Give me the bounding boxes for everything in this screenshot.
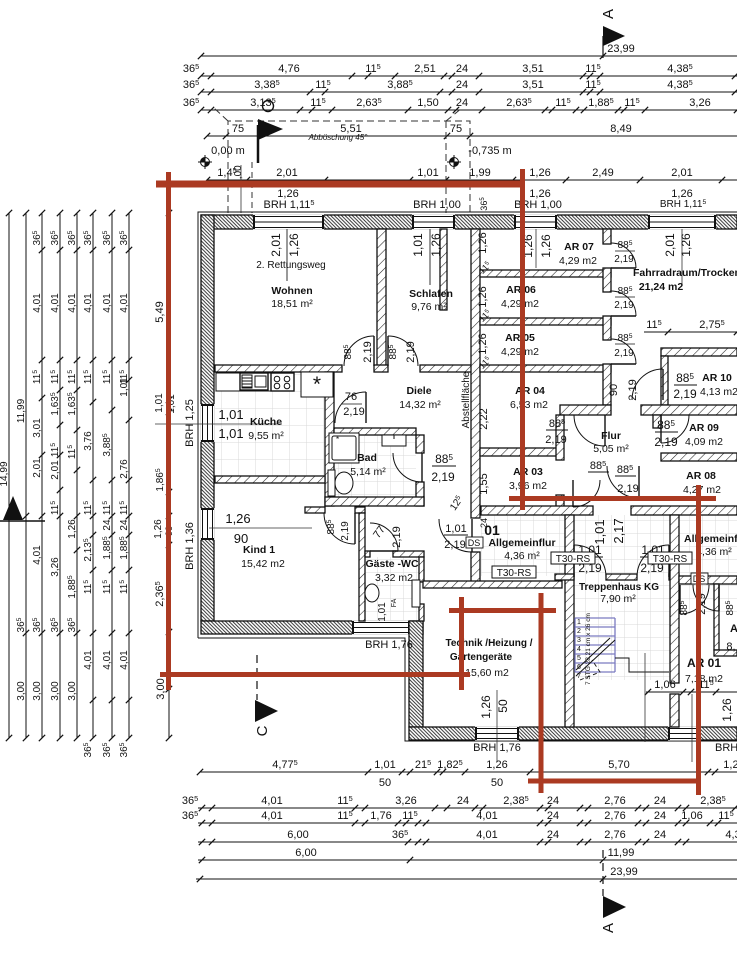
svg-text:4,01: 4,01 <box>102 650 113 670</box>
left dim col 11,99 <box>16 210 29 741</box>
Bad washbasin <box>382 435 406 446</box>
svg-text:Allgemeinflur: Allgemeinflur <box>488 537 555 549</box>
section marker A top <box>600 9 625 58</box>
svg-text:BRH 1,76: BRH 1,76 <box>473 742 521 754</box>
svg-text:1,76: 1,76 <box>370 810 391 822</box>
wall Flur west <box>556 415 564 460</box>
window line Kueche <box>155 423 282 425</box>
svg-text:DS: DS <box>468 538 481 548</box>
svg-text:3: 3 <box>577 637 581 644</box>
svg-text:BRH 1,76: BRH 1,76 <box>365 639 413 651</box>
door AR05 <box>611 339 636 364</box>
svg-text:2,01: 2,01 <box>32 458 43 478</box>
door Flur south <box>607 466 639 498</box>
svg-text:3,01: 3,01 <box>32 418 43 438</box>
svg-text:AR 10: AR 10 <box>702 372 732 384</box>
svg-text:C: C <box>254 725 271 736</box>
svg-text:24: 24 <box>456 97 468 109</box>
svg-text:9,55 m²: 9,55 m² <box>248 430 284 442</box>
svg-text:1,26: 1,26 <box>153 519 164 539</box>
svg-text:3,26: 3,26 <box>50 557 61 577</box>
exterior wall bottom Kind1 <box>201 621 423 634</box>
svg-text:AR 03: AR 03 <box>513 466 543 478</box>
door right small <box>693 585 719 611</box>
labels corridor 1,01 2,17 <box>592 518 626 544</box>
svg-text:1: 1 <box>577 619 581 626</box>
labels Schlafen window <box>411 233 443 257</box>
svg-text:1,01: 1,01 <box>374 759 395 771</box>
svg-text:2,01: 2,01 <box>50 460 61 480</box>
flag marker at building corner <box>258 119 283 163</box>
svg-text:24: 24 <box>102 519 113 531</box>
window line Fahrrad <box>681 229 683 285</box>
svg-text:2,19: 2,19 <box>614 300 634 311</box>
wall right small room <box>714 584 719 650</box>
svg-text:24: 24 <box>456 63 468 75</box>
dimension row 2,75 <box>644 318 737 335</box>
door band T30 left labels <box>444 523 468 551</box>
svg-text:1,26: 1,26 <box>479 695 493 719</box>
svg-text:1,55: 1,55 <box>478 473 490 494</box>
svg-text:5,49: 5,49 <box>154 301 166 322</box>
dashed line bottom marker <box>602 850 604 896</box>
svg-text:2: 2 <box>577 628 581 635</box>
svg-text:1,01: 1,01 <box>592 519 607 544</box>
wall AR09 west <box>653 415 661 428</box>
svg-text:14,99: 14,99 <box>0 461 10 486</box>
door Kind1 <box>324 513 355 544</box>
tiles Treppenhaus <box>574 576 670 680</box>
reference circle on 3,13 <box>263 101 274 112</box>
window line Technik south <box>496 690 498 762</box>
svg-text:2,01: 2,01 <box>671 167 692 179</box>
left dim col 14,99 <box>0 210 12 741</box>
svg-text:8,: 8, <box>726 641 735 653</box>
svg-text:1,26: 1,26 <box>477 232 489 253</box>
svg-text:2,76: 2,76 <box>604 810 625 822</box>
shaft FA <box>412 580 420 607</box>
window W5 Kueche <box>200 404 214 442</box>
wall divider Wohnen-Schlafen <box>377 229 386 366</box>
door Bad <box>393 453 422 482</box>
svg-text:2,19: 2,19 <box>405 341 417 362</box>
dimension row top 2 <box>183 78 737 95</box>
wall Bad south <box>325 497 424 506</box>
svg-text:AR 08: AR 08 <box>686 470 716 482</box>
dimension row bottom 3 <box>182 809 737 826</box>
window W2 Schlafen <box>412 214 455 229</box>
svg-text:4,01: 4,01 <box>50 293 61 313</box>
svg-text:3,00: 3,00 <box>16 681 27 701</box>
exterior wall top <box>201 215 737 229</box>
wall Treppenhaus west <box>565 515 574 727</box>
stair landing outline <box>615 658 669 672</box>
svg-text:4,01: 4,01 <box>261 795 282 807</box>
door Schlafen <box>388 336 418 366</box>
door Treppenhaus right labels <box>640 543 666 575</box>
svg-text:1,26: 1,26 <box>723 759 737 771</box>
wall Kind1 door wall <box>305 507 325 513</box>
labels Kind1 window <box>225 511 250 546</box>
svg-text:4,01: 4,01 <box>476 810 497 822</box>
svg-text:6,00: 6,00 <box>295 847 316 859</box>
door AR07 labels <box>614 240 635 265</box>
dimension row bottom 4 <box>198 828 737 845</box>
wall AR10 west <box>661 356 668 405</box>
exterior wall left <box>201 215 214 621</box>
door Wohnen labels <box>343 341 374 362</box>
labels 50 below row <box>379 777 503 789</box>
wall Technik north <box>423 581 562 588</box>
ticks red column <box>166 210 172 692</box>
svg-text:Allgemeinflur: Allgemeinflur <box>684 533 737 545</box>
door AR10 <box>632 369 663 400</box>
svg-text:AR 09: AR 09 <box>689 422 719 434</box>
svg-text:3,26: 3,26 <box>689 97 710 109</box>
svg-text:BRH 1,76: BRH 1,76 <box>715 742 737 754</box>
window W4 Fahrradraum <box>648 214 716 229</box>
svg-text:4,01: 4,01 <box>32 545 43 565</box>
svg-text:8,49: 8,49 <box>610 123 631 135</box>
svg-text:2,19: 2,19 <box>627 379 639 400</box>
door Treppenhaus right T30 <box>637 545 669 577</box>
stair treads <box>575 618 615 672</box>
door Flur west <box>574 415 605 446</box>
svg-text:Wohnen: Wohnen <box>271 285 312 297</box>
svg-text:BRH 1,00: BRH 1,00 <box>413 199 461 211</box>
svg-text:1,99: 1,99 <box>469 167 490 179</box>
outer plaster line <box>198 212 737 741</box>
door DS right labels <box>679 593 708 615</box>
svg-text:Gäste -WC: Gäste -WC <box>365 558 419 570</box>
Bad shower <box>329 433 359 463</box>
window W3 AR07 <box>514 214 557 229</box>
kitchen fridge <box>301 372 333 397</box>
window line AR07 <box>535 229 537 268</box>
svg-text:2,19: 2,19 <box>545 434 566 446</box>
svg-text:50: 50 <box>491 777 503 789</box>
svg-text:BRH 1,115: BRH 1,115 <box>264 198 315 211</box>
stair direction line <box>576 640 615 676</box>
svg-text:2,51: 2,51 <box>414 63 435 75</box>
dashed line at 252 <box>251 162 253 213</box>
svg-text:AR 01: AR 01 <box>687 656 721 670</box>
excavation dashed outline <box>214 108 470 213</box>
section marker B <box>0 496 45 521</box>
red horizontal line top <box>156 181 525 188</box>
svg-text:1,01: 1,01 <box>218 407 243 422</box>
svg-text:4,36 m²: 4,36 m² <box>504 550 540 562</box>
svg-text:Abböschung 45°: Abböschung 45° <box>308 133 369 142</box>
svg-text:1,01: 1,01 <box>377 602 388 622</box>
svg-text:1,26: 1,26 <box>539 234 553 258</box>
window W7 Kind1 south <box>352 620 410 634</box>
svg-text:2,76: 2,76 <box>119 459 130 479</box>
svg-text:-0,735 m: -0,735 m <box>468 145 511 157</box>
window line Schlafen <box>429 229 431 285</box>
Bad toilet <box>328 470 353 496</box>
svg-text:2,01: 2,01 <box>663 233 677 257</box>
svg-text:14,32 m²: 14,32 m² <box>399 399 441 411</box>
svg-text:5,70: 5,70 <box>608 759 629 771</box>
svg-text:4,01: 4,01 <box>102 293 113 313</box>
svg-text:1,01: 1,01 <box>119 377 130 397</box>
door Bad labels <box>431 452 456 484</box>
dimension row bottom 5 <box>198 847 737 863</box>
door AR09 labels <box>654 418 678 449</box>
svg-text:4,27 m2: 4,27 m2 <box>683 484 721 496</box>
svg-text:1,06: 1,06 <box>654 679 675 691</box>
svg-text:24: 24 <box>654 795 666 807</box>
door Kueche <box>335 392 366 423</box>
window W1 Wohnen <box>253 214 324 229</box>
wall Wohnen south a <box>215 365 342 372</box>
door AR09 <box>661 415 689 443</box>
svg-text:Schlafen: Schlafen <box>409 288 453 300</box>
T30-RS box left <box>551 552 595 564</box>
svg-text:6,00: 6,00 <box>287 829 308 841</box>
svg-text:1,26: 1,26 <box>225 511 250 526</box>
tiles Bad <box>334 435 416 497</box>
svg-text:0,00 m: 0,00 m <box>211 145 245 157</box>
tiles Allgemeinflur band <box>481 515 737 576</box>
stair numbers <box>577 619 581 680</box>
svg-text:1,01: 1,01 <box>445 523 466 535</box>
svg-text:Fahrradraum/Trockenraum: Fahrradraum/Trockenraum <box>633 267 737 279</box>
door Flur west labels <box>545 417 568 446</box>
left dim col 5 <box>67 210 80 741</box>
window W6 Kind1 <box>200 508 214 540</box>
wall Treppenhaus door band <box>555 574 574 580</box>
window line Wohnen <box>286 229 288 281</box>
wall AR partition 1 <box>480 270 611 277</box>
svg-text:1,06: 1,06 <box>681 810 702 822</box>
svg-text:2,19: 2,19 <box>614 254 634 265</box>
svg-text:76: 76 <box>345 391 357 403</box>
svg-text:FA: FA <box>391 598 398 607</box>
svg-text:2,76: 2,76 <box>604 829 625 841</box>
door Kueche labels <box>342 391 365 418</box>
door DS box left <box>466 537 483 548</box>
svg-text:2,19: 2,19 <box>673 387 697 401</box>
svg-text:4,13 m2: 4,13 m2 <box>700 386 737 398</box>
svg-text:Küche: Küche <box>250 416 282 428</box>
red cross vertical <box>459 597 464 690</box>
svg-text:2,19: 2,19 <box>617 483 638 495</box>
svg-text:2,19: 2,19 <box>343 406 364 418</box>
tiles right rooms <box>679 584 737 614</box>
svg-text:3,00: 3,00 <box>32 681 43 701</box>
svg-text:75: 75 <box>232 123 244 135</box>
svg-text:24: 24 <box>456 79 468 91</box>
dimension row top 3 <box>183 96 737 113</box>
svg-text:4,01: 4,01 <box>119 650 130 670</box>
svg-text:3,96 m2: 3,96 m2 <box>509 480 547 492</box>
svg-text:*: * <box>313 373 321 396</box>
svg-text:1,01: 1,01 <box>154 393 165 413</box>
left dim col 3 <box>32 210 45 741</box>
svg-text:75: 75 <box>450 123 462 135</box>
labels red covered column <box>153 301 177 699</box>
svg-text:A: A <box>600 9 617 19</box>
door Gaeste-WC <box>370 523 398 551</box>
window W8 Technik south <box>475 726 519 740</box>
svg-text:15,60 m2: 15,60 m2 <box>465 667 509 679</box>
T30-RS box lower left <box>492 566 536 578</box>
svg-text:11,99: 11,99 <box>608 847 635 859</box>
kitchen counter <box>216 373 294 391</box>
svg-text:1,50: 1,50 <box>417 97 438 109</box>
leader line at 241 <box>240 165 242 213</box>
wall right rooms divider <box>679 576 694 584</box>
svg-text:9,76 m²: 9,76 m² <box>411 301 447 313</box>
svg-text:4,01: 4,01 <box>119 293 130 313</box>
svg-text:24: 24 <box>457 795 469 807</box>
wall Gaeste-WC west <box>359 513 365 621</box>
dimension row bottom 6 <box>196 866 737 882</box>
door AR10 labels <box>673 371 697 401</box>
svg-text:2,76: 2,76 <box>604 795 625 807</box>
svg-text:T30-RS: T30-RS <box>556 554 591 565</box>
labels Technik window <box>479 695 510 719</box>
red vertical line treppenhaus <box>539 593 544 793</box>
svg-text:90: 90 <box>608 384 620 396</box>
svg-text:24: 24 <box>547 829 559 841</box>
door AR06 labels <box>614 286 635 311</box>
left dim col 7 <box>102 210 115 758</box>
section marker C <box>254 655 278 736</box>
labels Fahrrad window <box>663 233 693 257</box>
svg-text:24: 24 <box>547 795 559 807</box>
svg-text:4,76: 4,76 <box>278 63 299 75</box>
wall Treppenhaus east <box>670 515 679 683</box>
svg-text:4,09 m2: 4,09 m2 <box>685 436 723 448</box>
svg-text:7,90 m²: 7,90 m² <box>600 593 636 605</box>
wall AR east with door gaps <box>603 229 611 405</box>
svg-text:BRH 1,36: BRH 1,36 <box>184 522 196 570</box>
svg-text:6,53 m2: 6,53 m2 <box>510 399 548 411</box>
exterior wall step vertical <box>409 621 423 727</box>
door Kind1 labels <box>326 519 351 540</box>
svg-text:5,14 m²: 5,14 m² <box>350 466 386 478</box>
door band T30 left <box>439 519 472 552</box>
svg-text:T30-RS: T30-RS <box>653 554 688 565</box>
svg-text:23,99: 23,99 <box>607 43 635 55</box>
wall Schlafen south b <box>420 365 480 372</box>
svg-text:3,51: 3,51 <box>522 63 543 75</box>
svg-text:50: 50 <box>379 777 391 789</box>
svg-text:24: 24 <box>654 810 666 822</box>
svg-text:24: 24 <box>119 519 130 531</box>
door AR05 labels <box>614 333 635 359</box>
svg-text:AR 04: AR 04 <box>515 385 545 397</box>
labels 1,26 below line <box>277 188 692 200</box>
svg-text:4,01: 4,01 <box>32 293 43 313</box>
svg-text:23,99: 23,99 <box>610 866 638 878</box>
window line south right <box>691 694 693 762</box>
red cross horizontal <box>449 608 556 613</box>
door Schlafen labels <box>388 341 417 362</box>
svg-text:2,19: 2,19 <box>444 539 465 551</box>
svg-text:18,51 m²: 18,51 m² <box>271 298 313 310</box>
svg-text:2,19: 2,19 <box>340 521 351 541</box>
T30-RS box right <box>648 552 692 564</box>
dimension row bottom 2 <box>182 794 737 811</box>
svg-text:Diele: Diele <box>406 385 431 397</box>
svg-text:Bad: Bad <box>357 452 377 464</box>
svg-text:5: 5 <box>577 655 581 662</box>
svg-text:1,26: 1,26 <box>477 333 489 354</box>
dimension row bottom 1 <box>197 758 737 775</box>
red horizontal line bottom <box>528 779 701 784</box>
door Gaeste-WC labels <box>371 524 403 548</box>
svg-text:Abstellfläche: Abstellfläche <box>461 371 472 428</box>
svg-text:2,01: 2,01 <box>269 233 283 257</box>
svg-text:3,00: 3,00 <box>67 681 78 701</box>
svg-text:2,17: 2,17 <box>611 518 626 543</box>
labels AR column ticks 11-5 <box>477 259 494 371</box>
dim col at building edge <box>166 690 172 741</box>
section marker A bottom <box>600 896 626 933</box>
labels AR column 1,26 <box>477 232 489 354</box>
svg-text:2. Rettungsweg: 2. Rettungsweg <box>256 260 326 271</box>
door Flur southwest <box>573 480 600 507</box>
svg-text:*: * <box>336 435 339 444</box>
dimension row total 23,99 top <box>198 43 737 59</box>
survey marker right <box>447 155 461 169</box>
svg-text:1,26: 1,26 <box>67 519 78 539</box>
svg-text:2,19: 2,19 <box>431 470 455 484</box>
labels Kueche window <box>218 407 243 441</box>
svg-text:2,19: 2,19 <box>614 348 634 359</box>
tiles Gaeste-WC <box>365 557 419 620</box>
left dim col 6 <box>83 210 96 758</box>
svg-text:4,01: 4,01 <box>261 810 282 822</box>
svg-text:2,19: 2,19 <box>391 526 403 547</box>
svg-text:4,01: 4,01 <box>476 829 497 841</box>
red vertical line mid <box>520 169 525 510</box>
svg-text:11,99: 11,99 <box>16 398 27 423</box>
svg-text:Kind 1: Kind 1 <box>243 544 275 556</box>
stair cut dashed <box>580 660 600 680</box>
wall AR09 south <box>661 453 737 461</box>
wall AR partition 4 <box>480 448 560 456</box>
wall band middle <box>481 506 593 515</box>
svg-text:4,36 m²: 4,36 m² <box>696 546 732 558</box>
door DS right <box>680 585 709 614</box>
svg-text:2,19: 2,19 <box>654 435 678 449</box>
svg-text:BRH 1,25: BRH 1,25 <box>184 399 196 447</box>
wall AR partition 3 <box>480 365 611 372</box>
wall Bad east <box>416 435 424 453</box>
left dim col 4 <box>50 210 63 741</box>
svg-text:3,00: 3,00 <box>155 678 167 699</box>
svg-text:3,26: 3,26 <box>395 795 416 807</box>
labels AR07 window <box>521 234 553 258</box>
window line Kind1 <box>209 527 312 529</box>
door Treppenhaus left labels <box>577 543 603 575</box>
svg-text:Technik /Heizung /: Technik /Heizung / <box>445 638 532 649</box>
svg-text:A: A <box>730 623 737 635</box>
svg-text:A: A <box>600 923 617 933</box>
svg-text:50: 50 <box>496 699 510 713</box>
wall corridor Abstellflaeche east <box>471 229 480 518</box>
dimension row top 1 <box>183 62 737 79</box>
svg-text:15,42 m2: 15,42 m2 <box>241 558 285 570</box>
door AR06 <box>611 291 636 316</box>
window W9 south right <box>668 726 700 740</box>
svg-text:Flur: Flur <box>601 430 621 442</box>
